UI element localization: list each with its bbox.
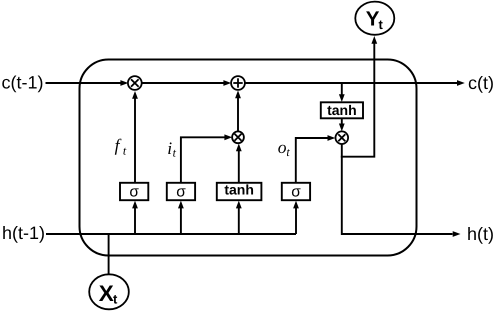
svg-text:h(t): h(t) [467,224,494,244]
svg-text:σ: σ [291,184,301,201]
label i_t [167,138,176,159]
label f_t [115,135,127,157]
svg-text:h(t-1): h(t-1) [2,223,45,243]
wire σ2 up and right to ⊗2 (i_t) [181,134,232,182]
wire riser to tanh gate [236,201,242,234]
add node ⊕ [231,76,245,90]
label o_t [278,137,291,159]
multiply node output ⊗3 [336,131,349,144]
svg-text:t: t [113,292,118,307]
tanh box (output activation) [321,102,363,119]
wire riser to σ1 [132,201,138,234]
svg-text:i: i [167,138,172,158]
svg-text:c(t-1): c(t-1) [2,73,44,93]
wire σ1 up to ⊗1 (f_t) [132,91,138,183]
svg-text:t: t [379,17,384,32]
wire tanh gate up to ⊗2 [236,144,242,183]
wire riser to σ2 [178,201,184,234]
svg-text:X: X [99,281,114,306]
wire c(t-1) input [46,80,129,86]
wire σ3 up and right to ⊗3 (o_t) [296,135,336,183]
wire h(t-1) input [46,233,296,235]
multiply node input ⊗2 [232,131,244,143]
svg-text:c(t): c(t) [468,73,494,93]
wire ⊗1 to ⊕ [142,80,231,86]
wire branch up to Y_t [341,36,377,157]
output node Y_t [355,2,394,35]
multiply node forget ⊗1 [128,76,142,90]
svg-text:σ: σ [129,184,139,201]
wire riser to σ3 [293,201,299,234]
wire ⊗2 up to ⊕ [235,90,241,131]
sigma box σ1 forget gate [120,183,148,201]
tanh box candidate gate [217,181,262,200]
wire tanh to ⊗3 [339,118,345,131]
sigma box σ2 input gate [167,183,195,201]
wire c(t) output [245,80,465,86]
input node X_t [89,274,129,309]
cell boundary (rounded rectangle) [80,60,417,256]
svg-text:tanh: tanh [327,102,357,118]
wire c-line branch down to tanh [339,83,345,102]
wire h(t) output from ⊗3 [342,144,461,237]
wire X_t riser [108,234,110,275]
sigma box σ3 output gate [282,183,310,201]
svg-text:tanh: tanh [224,181,254,197]
svg-text:σ: σ [176,184,186,201]
